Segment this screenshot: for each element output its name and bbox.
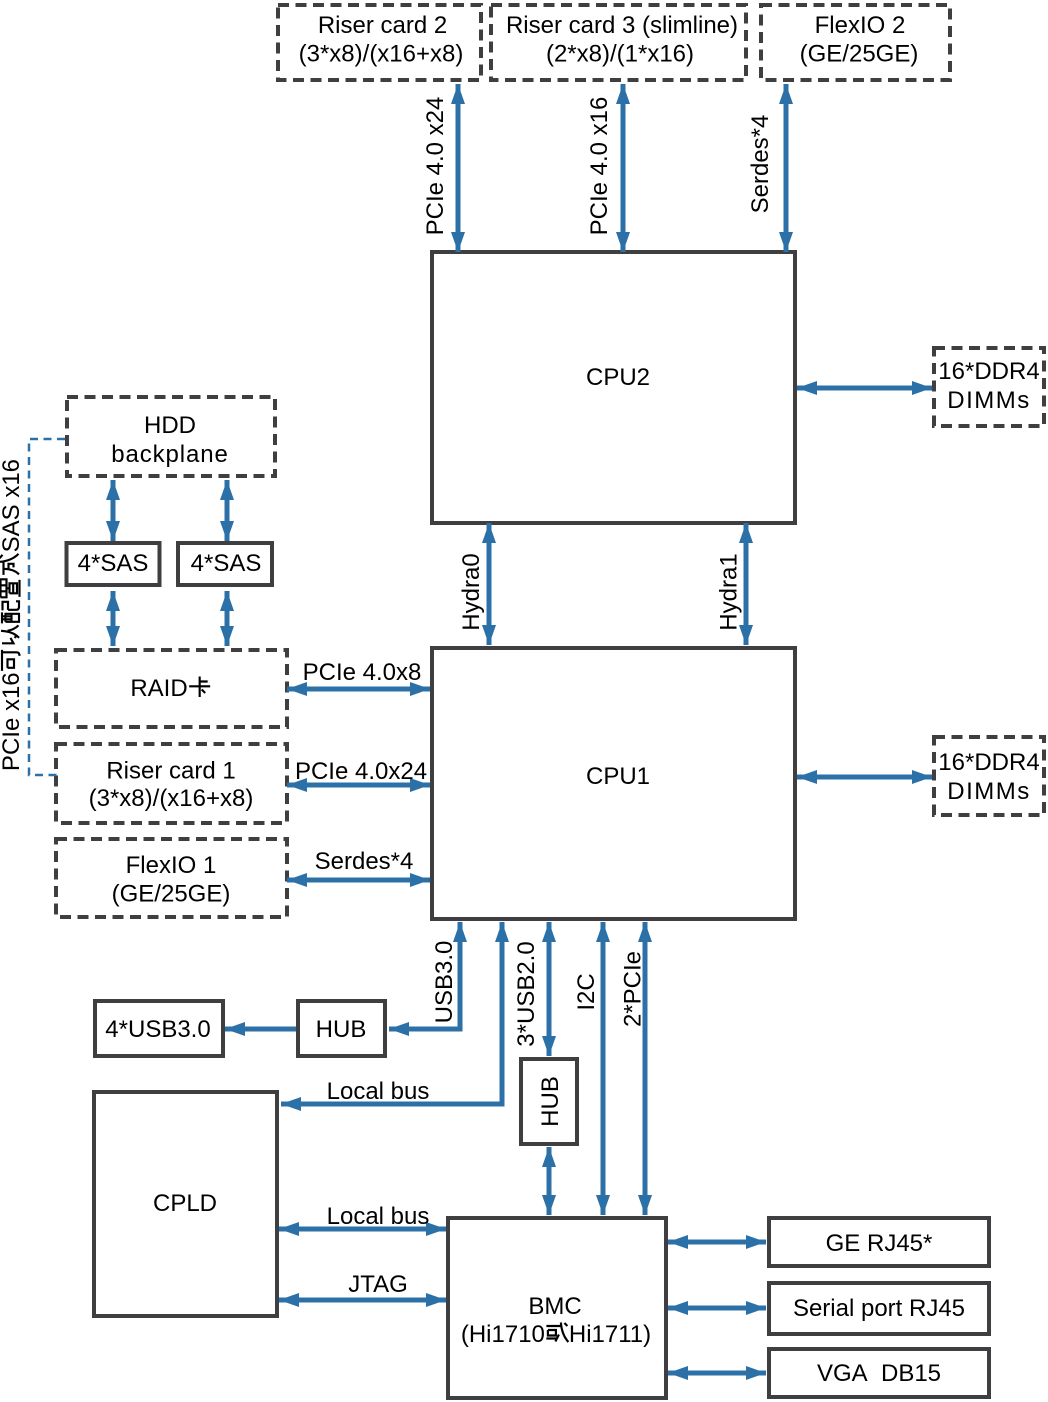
svg-text:Hydra0: Hydra0: [458, 553, 485, 630]
svg-text:FlexIO 2: FlexIO 2: [815, 12, 906, 39]
svg-text:SAS x16: SAS x16: [0, 459, 25, 552]
svg-text:CPLD: CPLD: [153, 1190, 217, 1217]
svg-text:DIMMs: DIMMs: [947, 387, 1030, 414]
svg-text:Local bus: Local bus: [327, 1203, 430, 1230]
svg-text:(GE/25GE): (GE/25GE): [800, 41, 919, 68]
svg-text:VGA DB15: VGA DB15: [817, 1360, 941, 1387]
svg-text:JTAG: JTAG: [348, 1271, 408, 1298]
svg-text:(2*x8)/(1*x16): (2*x8)/(1*x16): [546, 41, 694, 68]
svg-text:(GE/25GE): (GE/25GE): [112, 881, 231, 908]
svg-text:USB3.0: USB3.0: [431, 941, 458, 1024]
svg-text:16*DDR4: 16*DDR4: [938, 358, 1039, 385]
svg-text:16*DDR4: 16*DDR4: [938, 749, 1039, 776]
svg-text:backplane: backplane: [111, 441, 229, 468]
svg-text:Riser card 3 (slimline): Riser card 3 (slimline): [506, 12, 738, 39]
svg-text:BMC: BMC: [528, 1293, 581, 1320]
svg-text:HUB: HUB: [316, 1016, 367, 1043]
svg-text:(Hi1710: (Hi1710: [461, 1321, 545, 1348]
svg-text:4*USB3.0: 4*USB3.0: [105, 1016, 210, 1043]
svg-text:2*PCIe: 2*PCIe: [620, 951, 647, 1027]
svg-text:4*SAS: 4*SAS: [78, 550, 149, 577]
svg-text:Serdes*4: Serdes*4: [747, 115, 774, 214]
svg-text:Local bus: Local bus: [327, 1078, 430, 1105]
svg-text:PCIe 4.0 x16: PCIe 4.0 x16: [586, 97, 613, 236]
svg-text:(3*x8)/(x16+x8): (3*x8)/(x16+x8): [299, 41, 464, 68]
svg-text:CPU1: CPU1: [586, 763, 650, 790]
svg-text:PCIe x16: PCIe x16: [0, 672, 25, 771]
svg-text:I2C: I2C: [573, 973, 600, 1010]
svg-text:Hi1711): Hi1711): [569, 1321, 651, 1348]
svg-text:3*USB2.0: 3*USB2.0: [513, 941, 540, 1046]
svg-text:4*SAS: 4*SAS: [191, 550, 262, 577]
svg-text:HDD: HDD: [144, 412, 196, 439]
svg-text:Hydra1: Hydra1: [716, 553, 743, 630]
svg-text:Serdes*4: Serdes*4: [315, 848, 414, 875]
svg-text:Serial port RJ45: Serial port RJ45: [793, 1295, 965, 1322]
svg-text:RAID: RAID: [130, 675, 187, 702]
svg-text:Riser card 2: Riser card 2: [318, 12, 447, 39]
svg-text:PCIe 4.0x8: PCIe 4.0x8: [303, 659, 422, 686]
svg-text:DIMMs: DIMMs: [947, 778, 1030, 805]
svg-text:(3*x8)/(x16+x8): (3*x8)/(x16+x8): [89, 785, 254, 812]
svg-text:Riser card 1: Riser card 1: [106, 758, 235, 785]
svg-text:PCIe 4.0x24: PCIe 4.0x24: [295, 758, 427, 785]
svg-text:CPU2: CPU2: [586, 364, 650, 391]
svg-text:PCIe 4.0 x24: PCIe 4.0 x24: [422, 97, 449, 236]
svg-text:GE RJ45*: GE RJ45*: [826, 1230, 933, 1257]
svg-text:HUB: HUB: [537, 1076, 564, 1127]
svg-text:FlexIO 1: FlexIO 1: [126, 852, 217, 879]
